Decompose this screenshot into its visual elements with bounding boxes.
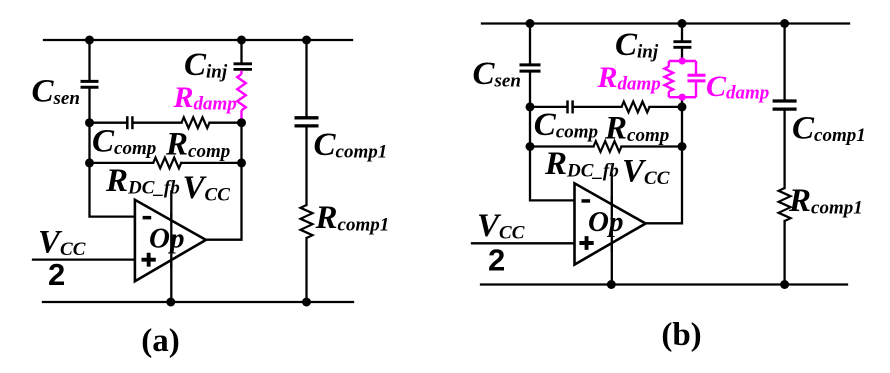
junction dots (a) xyxy=(85,36,311,307)
wire: bottom rail (b) xyxy=(481,283,847,285)
svg-text:Op: Op xyxy=(149,223,184,255)
wire: Vcc stub and output-to-ground vertical through op-amp (b) xyxy=(611,175,613,285)
wire: vertical line over op-amp (a) xyxy=(170,213,172,268)
wire: right compensation vertical branch (b) xyxy=(783,24,785,285)
resistor R_comp1 (b) vertical zigzag xyxy=(779,188,791,221)
parallel R_damp / C_damp block (b) magenta xyxy=(665,59,697,100)
resistor R_comp (b) zigzag xyxy=(622,102,650,113)
resistor R_damp (b) magenta vertical zigzag xyxy=(668,61,670,67)
node dots of magenta block (b) xyxy=(679,57,686,100)
wire: top rail (a) xyxy=(44,39,352,41)
capacitor C_sen (b) plates xyxy=(520,65,541,71)
op-amp Op (a) triangle xyxy=(135,200,206,281)
wire: magenta center stubs xyxy=(681,59,683,62)
wire: Vcc/2 bar and non-inverting input wire (a) xyxy=(33,258,136,260)
wire: right compensation vertical branch (a) xyxy=(305,40,307,302)
resistor R_DC_fb (b) zigzag xyxy=(594,141,622,152)
wire: left vertical branch (a) with corner to op-amp inverting input xyxy=(90,40,136,217)
resistor R_DC_fb (a) zigzag xyxy=(153,158,181,169)
wire: left vertical branch (b) with corner to op-amp inverting input xyxy=(530,24,575,201)
op-amp (a) minus sign xyxy=(143,216,152,220)
capacitor C_comp1 (b) plates xyxy=(773,101,797,109)
svg-text:2: 2 xyxy=(48,257,65,292)
op-amp Op (b) triangle xyxy=(575,183,646,264)
wire: magenta bottom bar xyxy=(669,96,696,98)
op-amp (a) plus sign xyxy=(142,253,156,267)
circuit (a) xyxy=(33,40,353,302)
wire: RDC_fb feedback wire (b) xyxy=(530,145,682,147)
wire: Vcc/2 bar and non-inverting input wire (b) xyxy=(472,242,575,244)
wire: top rail (b) xyxy=(482,22,849,24)
circuit (b) xyxy=(472,24,849,285)
capacitor C_inj (b) plates xyxy=(673,42,691,48)
wire: vertical line over op-amp (b) xyxy=(611,196,613,252)
wire: magenta top bar xyxy=(669,60,696,62)
svg-text:(b): (b) xyxy=(661,317,701,353)
capacitor C_inj (a) plates xyxy=(234,64,253,70)
svg-text:Op: Op xyxy=(588,206,623,238)
capacitor C_comp (a) plates xyxy=(127,116,132,129)
wire: injection vertical branch (b) xyxy=(645,24,682,224)
wire: injection/feedback vertical branch (a) xyxy=(206,40,242,240)
capacitor C_comp (b) plates xyxy=(568,100,573,113)
wire: Vcc stub and output-to-ground vertical through op-amp (a) xyxy=(170,192,172,303)
capacitor C_sen (a) plates xyxy=(81,81,99,87)
junction dots (b) xyxy=(526,19,790,289)
wire: RDC_fb feedback wire (a) xyxy=(90,162,242,164)
svg-text:2: 2 xyxy=(488,243,505,278)
op-amp (b) plus sign xyxy=(579,236,593,250)
capacitor C_comp1 (a) plates xyxy=(295,118,319,126)
wire: Ccomp/Rcomp feedback wire (b) xyxy=(530,106,682,108)
capacitor C_damp (b) branch wire xyxy=(695,61,697,97)
wire: Ccomp/Rcomp feedback wire (a) xyxy=(90,122,242,124)
capacitor C_damp (b) magenta plates xyxy=(688,75,706,81)
op-amp (b) minus sign xyxy=(582,199,591,203)
wire: bottom rail (a) xyxy=(43,301,353,303)
resistor R_comp (a) zigzag xyxy=(182,117,210,128)
resistor R_damp (a) magenta vertical zigzag xyxy=(237,71,246,120)
resistor R_comp1 (a) vertical zigzag xyxy=(301,205,313,238)
svg-text:(a): (a) xyxy=(141,323,179,359)
